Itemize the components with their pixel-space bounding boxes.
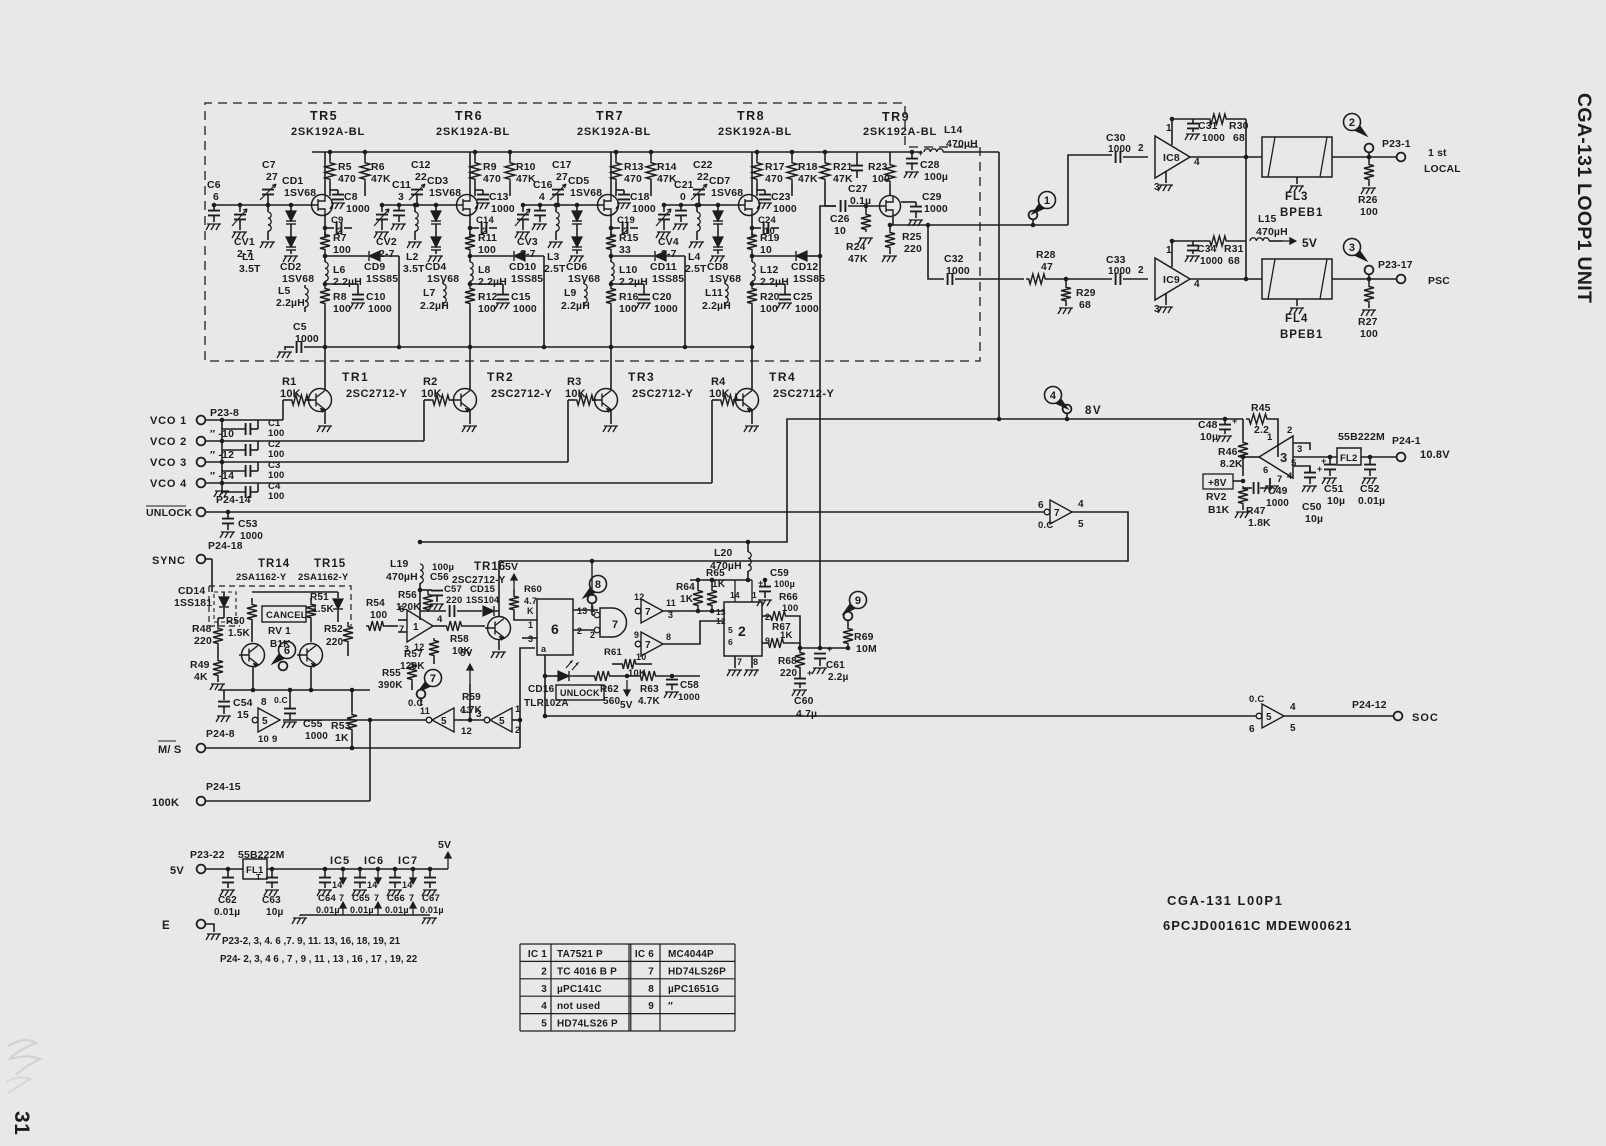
svg-text:TR6: TR6 <box>455 109 483 123</box>
svg-text:CV3: CV3 <box>517 237 538 248</box>
svg-text:L9: L9 <box>564 288 577 299</box>
svg-text:L12: L12 <box>760 265 779 276</box>
svg-text:PSC: PSC <box>1428 276 1450 287</box>
svg-text:14: 14 <box>332 880 342 890</box>
svg-text:TA7521 P: TA7521 P <box>557 949 603 960</box>
svg-text:R46: R46 <box>1218 447 1238 458</box>
svg-text:FL3: FL3 <box>1285 191 1308 203</box>
svg-text:2: 2 <box>1138 143 1144 154</box>
svg-text:R2: R2 <box>423 376 437 388</box>
svg-text:7: 7 <box>645 607 651 618</box>
svg-text:10M: 10M <box>856 644 877 655</box>
svg-text:22: 22 <box>697 172 709 183</box>
svg-text:L8: L8 <box>478 265 491 276</box>
svg-text:R60: R60 <box>524 584 542 595</box>
svg-text:2: 2 <box>337 226 342 237</box>
svg-text:R51: R51 <box>310 592 329 603</box>
svg-text:220: 220 <box>194 636 212 647</box>
svg-text:27: 27 <box>556 172 568 183</box>
svg-text:1.5K: 1.5K <box>228 628 251 639</box>
svg-text:R11: R11 <box>478 233 497 244</box>
svg-text:C7: C7 <box>262 160 276 171</box>
svg-text:0.01µ: 0.01µ <box>385 905 409 915</box>
svg-text:1SV68: 1SV68 <box>282 274 314 285</box>
svg-text:14: 14 <box>367 880 377 890</box>
svg-text:CD11: CD11 <box>650 262 677 273</box>
svg-text:C14: C14 <box>476 215 495 226</box>
svg-text:1SS85: 1SS85 <box>652 274 684 285</box>
svg-text:10: 10 <box>760 245 772 256</box>
svg-text:CGA-131 LOOP1 UNIT: CGA-131 LOOP1 UNIT <box>1573 93 1595 303</box>
svg-text:220: 220 <box>326 637 344 648</box>
svg-text:C56: C56 <box>430 572 449 583</box>
svg-text:47K: 47K <box>798 174 818 185</box>
svg-text:3: 3 <box>1154 304 1160 315</box>
svg-text:2: 2 <box>738 623 746 639</box>
svg-text:5: 5 <box>499 716 505 727</box>
svg-text:5V: 5V <box>1302 236 1317 250</box>
svg-text:L2: L2 <box>406 252 419 263</box>
svg-text:P24-14: P24-14 <box>216 495 251 506</box>
svg-text:+: + <box>758 578 763 588</box>
svg-text:0: 0 <box>680 192 686 203</box>
svg-text:R16: R16 <box>619 292 639 303</box>
svg-text:6: 6 <box>728 637 733 647</box>
svg-text:2SK192A-BL: 2SK192A-BL <box>863 126 937 138</box>
svg-text:10K: 10K <box>421 388 442 400</box>
svg-text:CV4: CV4 <box>658 237 679 248</box>
svg-text:C28: C28 <box>920 160 940 171</box>
svg-text:C19: C19 <box>617 215 635 226</box>
svg-text:R24: R24 <box>846 242 866 253</box>
svg-text:100: 100 <box>478 245 496 256</box>
svg-text:7: 7 <box>1277 474 1282 485</box>
svg-text:1K: 1K <box>780 630 793 641</box>
svg-text:100: 100 <box>760 304 778 315</box>
svg-text:470: 470 <box>483 174 501 185</box>
svg-text:BPEB1: BPEB1 <box>1280 207 1323 219</box>
svg-text:T: T <box>256 873 261 882</box>
svg-text:3: 3 <box>1280 450 1287 465</box>
svg-text:4.7K: 4.7K <box>638 696 661 707</box>
svg-text:CD6: CD6 <box>566 262 587 273</box>
svg-text:470µH: 470µH <box>710 561 742 572</box>
svg-text:10K: 10K <box>452 646 472 657</box>
svg-text:C32: C32 <box>944 254 964 265</box>
svg-text:P23-17: P23-17 <box>1378 260 1413 271</box>
svg-text:8: 8 <box>648 984 654 995</box>
svg-text:2SK192A-BL: 2SK192A-BL <box>291 126 365 138</box>
svg-text:9: 9 <box>272 734 277 745</box>
svg-text:C8: C8 <box>344 192 358 203</box>
svg-text:TR4: TR4 <box>769 370 796 384</box>
svg-text:R28: R28 <box>1036 250 1056 261</box>
svg-text:2SK192A-BL: 2SK192A-BL <box>436 126 510 138</box>
svg-text:C25: C25 <box>793 292 813 303</box>
svg-text:E: E <box>162 920 170 932</box>
svg-text:8.2K: 8.2K <box>1220 459 1243 470</box>
svg-text:1SS85: 1SS85 <box>511 274 543 285</box>
svg-text:1000: 1000 <box>678 692 700 703</box>
svg-text:C66: C66 <box>387 893 405 904</box>
svg-text:2SK192A-BL: 2SK192A-BL <box>718 126 792 138</box>
svg-text:390K: 390K <box>378 680 403 691</box>
svg-text:C53: C53 <box>238 519 258 530</box>
svg-text:5: 5 <box>1266 712 1272 723</box>
svg-text:C18: C18 <box>630 192 650 203</box>
svg-text:11: 11 <box>420 706 430 716</box>
svg-text:MC4044P: MC4044P <box>668 949 714 960</box>
svg-text:2: 2 <box>590 630 595 640</box>
svg-text:5: 5 <box>1290 723 1296 734</box>
svg-text:+: + <box>918 148 923 158</box>
svg-text:2: 2 <box>1349 117 1355 129</box>
svg-text:0.C: 0.C <box>1249 694 1264 705</box>
svg-text:C16: C16 <box>533 180 553 191</box>
svg-text:5: 5 <box>728 625 733 635</box>
svg-text:R10: R10 <box>516 162 536 173</box>
svg-text:C63: C63 <box>262 895 281 906</box>
svg-text:1000: 1000 <box>240 531 263 542</box>
svg-text:470: 470 <box>765 174 783 185</box>
svg-text:C60: C60 <box>794 696 814 707</box>
svg-text:R9: R9 <box>483 162 497 173</box>
svg-text:CD4: CD4 <box>425 262 446 273</box>
svg-text:4: 4 <box>1287 471 1293 482</box>
svg-text:R17: R17 <box>765 162 785 173</box>
svg-text:TR15: TR15 <box>314 558 346 570</box>
svg-text:10.8V: 10.8V <box>1420 449 1450 461</box>
svg-text:12: 12 <box>414 642 424 652</box>
svg-text:CD3: CD3 <box>427 176 448 187</box>
svg-text:11: 11 <box>666 598 676 608</box>
svg-text:5V: 5V <box>620 700 633 711</box>
svg-text:RV2: RV2 <box>1206 492 1227 503</box>
svg-text:2SA1162-Y: 2SA1162-Y <box>298 572 349 583</box>
svg-text:R53: R53 <box>331 721 351 732</box>
svg-text:R31: R31 <box>1224 244 1244 255</box>
svg-text:2.5T: 2.5T <box>544 264 566 275</box>
svg-text:C22: C22 <box>693 160 713 171</box>
svg-text:C50: C50 <box>1302 502 1322 513</box>
svg-text:1000: 1000 <box>773 204 797 215</box>
svg-text:470µH: 470µH <box>1256 227 1288 238</box>
svg-text:5: 5 <box>441 716 447 727</box>
svg-text:120K: 120K <box>400 661 425 672</box>
svg-text:10K: 10K <box>709 388 730 400</box>
svg-text:R5: R5 <box>338 162 352 173</box>
svg-text:2: 2 <box>765 612 770 622</box>
svg-text:C20: C20 <box>652 292 672 303</box>
svg-text:100K: 100K <box>152 797 179 809</box>
svg-text:UNLOCK: UNLOCK <box>146 507 192 519</box>
svg-text:C26: C26 <box>830 214 850 225</box>
svg-text:L5: L5 <box>278 286 291 297</box>
svg-text:10µ: 10µ <box>1305 514 1323 525</box>
svg-text:SYNC: SYNC <box>152 555 186 567</box>
svg-text:R3: R3 <box>567 376 581 388</box>
svg-text:R8: R8 <box>333 292 347 303</box>
svg-text:3: 3 <box>1349 242 1355 254</box>
svg-text:C12: C12 <box>411 160 431 171</box>
svg-text:C62: C62 <box>218 895 237 906</box>
svg-text:IC 6: IC 6 <box>635 949 654 960</box>
svg-text:C65: C65 <box>352 893 371 904</box>
svg-text:R55: R55 <box>382 668 401 679</box>
svg-text:7: 7 <box>645 640 651 651</box>
svg-text:CD1: CD1 <box>282 176 303 187</box>
svg-text:2SC2712-Y: 2SC2712-Y <box>491 388 553 400</box>
svg-text:LOCAL: LOCAL <box>1424 164 1461 175</box>
svg-text:100: 100 <box>333 245 351 256</box>
svg-text:C15: C15 <box>511 292 531 303</box>
svg-text:C34: C34 <box>1197 244 1217 255</box>
svg-text:C6: C6 <box>207 180 221 191</box>
svg-text:CD7: CD7 <box>709 176 730 187</box>
svg-text:L11: L11 <box>705 288 723 299</box>
svg-text:R56: R56 <box>398 590 417 601</box>
svg-text:R48: R48 <box>192 624 212 635</box>
svg-text:TR16: TR16 <box>474 561 506 573</box>
svg-text:1SS181: 1SS181 <box>174 598 212 609</box>
svg-text:7: 7 <box>612 619 618 631</box>
svg-text:6: 6 <box>551 621 559 637</box>
svg-text:R6: R6 <box>371 162 385 173</box>
svg-text:R62: R62 <box>600 684 619 695</box>
svg-text:220: 220 <box>446 595 462 606</box>
svg-text:4.7K: 4.7K <box>460 705 483 716</box>
svg-text:560: 560 <box>603 696 621 707</box>
svg-text:TR9: TR9 <box>882 110 910 124</box>
svg-text:P24-12: P24-12 <box>1352 700 1387 711</box>
svg-text:55B222M: 55B222M <box>1338 431 1385 443</box>
svg-text:1000: 1000 <box>1266 498 1289 509</box>
svg-text:68: 68 <box>1228 256 1240 267</box>
svg-text:1000: 1000 <box>795 304 819 315</box>
svg-text:R27: R27 <box>1358 317 1378 328</box>
svg-text:C24: C24 <box>758 215 777 226</box>
svg-text:3: 3 <box>541 984 547 995</box>
svg-text:C13: C13 <box>489 192 509 203</box>
svg-text:10: 10 <box>764 226 775 237</box>
svg-text:2SC2712-Y: 2SC2712-Y <box>346 388 408 400</box>
svg-text:R59: R59 <box>462 692 481 703</box>
svg-text:2.2µ: 2.2µ <box>828 672 849 683</box>
svg-text:R49: R49 <box>190 660 210 671</box>
svg-text:10: 10 <box>834 226 846 237</box>
svg-text:+: + <box>1232 416 1237 426</box>
svg-text:HD74LS26 P: HD74LS26 P <box>557 1019 618 1030</box>
svg-text:L4: L4 <box>688 252 701 263</box>
svg-text:4: 4 <box>1194 157 1200 168</box>
svg-text:10K: 10K <box>565 388 586 400</box>
svg-text:IC7: IC7 <box>398 855 418 867</box>
svg-text:8: 8 <box>595 579 601 591</box>
svg-text:R15: R15 <box>619 233 639 244</box>
svg-text:10: 10 <box>258 734 269 745</box>
svg-text:TR5: TR5 <box>310 109 338 123</box>
svg-text:8V: 8V <box>1085 405 1102 417</box>
svg-text:1SV68: 1SV68 <box>429 188 461 199</box>
svg-text:10: 10 <box>636 652 646 662</box>
svg-text:C54: C54 <box>233 698 253 709</box>
svg-text:100: 100 <box>478 304 496 315</box>
svg-text:2SC2712-Y: 2SC2712-Y <box>632 388 694 400</box>
svg-text:C48: C48 <box>1198 420 1218 431</box>
svg-text:10µ: 10µ <box>266 907 284 918</box>
svg-text:2: 2 <box>1138 265 1144 276</box>
svg-text:2SC2712-Y: 2SC2712-Y <box>452 575 506 586</box>
svg-text:100: 100 <box>333 304 351 315</box>
svg-text:2-7: 2-7 <box>520 249 536 260</box>
svg-text:IC5: IC5 <box>330 855 350 867</box>
svg-text:+: + <box>1321 456 1326 466</box>
svg-text:HD74LS26P: HD74LS26P <box>668 966 726 977</box>
svg-text:TR14: TR14 <box>258 558 290 570</box>
svg-text:33: 33 <box>619 245 631 256</box>
svg-text:+: + <box>827 644 832 654</box>
svg-text:6: 6 <box>284 645 290 657</box>
svg-text:C59: C59 <box>770 568 789 579</box>
svg-text:TR3: TR3 <box>628 370 655 384</box>
svg-text:1: 1 <box>515 704 521 715</box>
svg-text:9: 9 <box>634 630 639 640</box>
svg-text:1 st: 1 st <box>1428 148 1447 159</box>
svg-text:0.C: 0.C <box>274 695 288 705</box>
svg-text:100: 100 <box>1360 207 1378 218</box>
svg-text:CD10: CD10 <box>509 262 536 273</box>
svg-text:R52: R52 <box>324 624 343 635</box>
svg-text:2: 2 <box>1287 425 1292 436</box>
svg-text:1000: 1000 <box>924 204 948 215</box>
svg-text:2SC2712-Y: 2SC2712-Y <box>773 388 835 400</box>
svg-text:4: 4 <box>541 1001 547 1012</box>
svg-text:6: 6 <box>399 604 404 615</box>
svg-text:27: 27 <box>266 172 278 183</box>
svg-text:R23: R23 <box>868 162 888 173</box>
svg-text:1000: 1000 <box>295 334 319 345</box>
svg-text:C61: C61 <box>826 660 845 671</box>
svg-text:1SS85: 1SS85 <box>366 274 398 285</box>
svg-text:4.7: 4.7 <box>524 596 537 606</box>
svg-text:220: 220 <box>780 668 798 679</box>
svg-text:P24-15: P24-15 <box>206 782 241 793</box>
svg-text:R26: R26 <box>1358 195 1378 206</box>
svg-text:1: 1 <box>413 622 419 633</box>
svg-text:IC 1: IC 1 <box>528 949 547 960</box>
svg-text:5V: 5V <box>170 865 184 877</box>
svg-text:0.01µ: 0.01µ <box>316 905 340 915</box>
svg-text:+: + <box>807 668 812 678</box>
svg-text:M/ S: M/ S <box>158 744 181 756</box>
svg-text:1SV68: 1SV68 <box>570 188 602 199</box>
svg-text:CD5: CD5 <box>568 176 589 187</box>
svg-text:P23-8: P23-8 <box>210 407 239 419</box>
svg-text:BPEB1: BPEB1 <box>1280 329 1323 341</box>
svg-text:1: 1 <box>1044 195 1050 207</box>
svg-text:C67: C67 <box>422 893 440 904</box>
svg-text:0.01µ: 0.01µ <box>420 905 444 915</box>
svg-text:CV2: CV2 <box>376 237 397 248</box>
svg-text:TR7: TR7 <box>596 109 624 123</box>
svg-text:R64: R64 <box>676 582 695 593</box>
svg-text:C52: C52 <box>1360 484 1380 495</box>
svg-text:L20: L20 <box>714 548 733 559</box>
svg-text:SOC: SOC <box>1412 712 1439 724</box>
svg-text:1SS104: 1SS104 <box>466 595 499 605</box>
svg-text:2: 2 <box>482 226 487 237</box>
svg-text:C17: C17 <box>552 160 572 171</box>
svg-text:C9: C9 <box>331 215 344 226</box>
svg-text:C23: C23 <box>771 192 791 203</box>
svg-text:2-7: 2-7 <box>379 249 395 260</box>
svg-text:L6: L6 <box>333 265 346 276</box>
svg-text:″: ″ <box>668 1001 673 1012</box>
svg-text:R66: R66 <box>779 592 798 603</box>
svg-text:IC6: IC6 <box>364 855 384 867</box>
svg-text:7: 7 <box>374 893 379 903</box>
svg-text:R69: R69 <box>854 632 874 643</box>
svg-text:R47: R47 <box>1246 506 1266 517</box>
svg-text:1000: 1000 <box>1200 256 1223 267</box>
svg-text:not used: not used <box>557 1001 600 1012</box>
svg-text:12: 12 <box>461 726 472 737</box>
svg-text:9: 9 <box>855 595 861 607</box>
svg-text:L3: L3 <box>547 252 560 263</box>
svg-text:1000: 1000 <box>305 731 328 742</box>
svg-text:10K: 10K <box>280 388 301 400</box>
svg-text:CANCEL: CANCEL <box>266 610 307 621</box>
svg-text:1000: 1000 <box>491 204 515 215</box>
svg-text:7: 7 <box>339 893 344 903</box>
svg-text:B1K: B1K <box>1208 505 1230 516</box>
svg-text:C55: C55 <box>303 719 323 730</box>
svg-text:IC8: IC8 <box>1163 152 1180 164</box>
svg-text:100: 100 <box>782 603 798 614</box>
svg-text:P23-2, 3, 4. 6 ,7. 9, 11. 13,: P23-2, 3, 4. 6 ,7. 9, 11. 13, 16, 18, 19… <box>222 936 401 947</box>
svg-text:L1: L1 <box>242 252 255 263</box>
svg-text:R68: R68 <box>778 656 797 667</box>
svg-text:C51: C51 <box>1324 484 1344 495</box>
svg-text:1000: 1000 <box>368 304 392 315</box>
svg-text:2.2µH: 2.2µH <box>276 298 305 309</box>
svg-text:2SK192A-BL: 2SK192A-BL <box>577 126 651 138</box>
svg-text:5: 5 <box>541 1019 547 1030</box>
svg-text:68: 68 <box>1079 300 1091 311</box>
svg-text:L19: L19 <box>390 559 409 570</box>
svg-text:TR2: TR2 <box>487 370 514 384</box>
svg-text:6: 6 <box>213 192 219 203</box>
svg-text:1000: 1000 <box>654 304 678 315</box>
svg-text:2-7: 2-7 <box>661 249 677 260</box>
svg-text:R1: R1 <box>282 376 296 388</box>
svg-text:K: K <box>527 606 534 616</box>
svg-text:P23-22: P23-22 <box>190 850 225 861</box>
svg-text:IC9: IC9 <box>1163 274 1180 286</box>
svg-text:1: 1 <box>590 604 595 614</box>
svg-text:2: 2 <box>623 226 628 237</box>
svg-text:R4: R4 <box>711 376 726 388</box>
svg-text:1000: 1000 <box>946 266 970 277</box>
svg-text:7: 7 <box>430 673 436 685</box>
svg-text:R25: R25 <box>902 232 922 243</box>
svg-text:3: 3 <box>1297 444 1302 455</box>
svg-text:4.7µ: 4.7µ <box>796 709 817 720</box>
svg-text:R18: R18 <box>798 162 818 173</box>
svg-text:4: 4 <box>1078 499 1084 510</box>
svg-text:R30: R30 <box>1229 121 1249 132</box>
svg-text:4: 4 <box>437 614 443 625</box>
